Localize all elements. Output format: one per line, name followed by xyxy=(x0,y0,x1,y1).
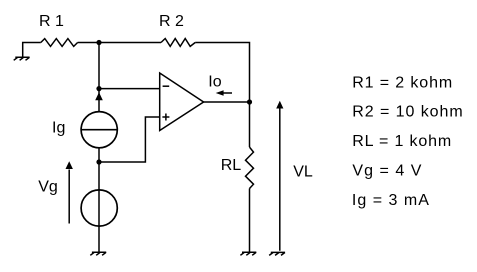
arrow Vg (source voltage arrow) xyxy=(68,170,70,224)
wire node D to op-amp non-inverting input xyxy=(99,117,160,162)
svg-text:R2 = 10 kohm: R2 = 10 kohm xyxy=(352,104,463,121)
wire node B to op-amp inverting input xyxy=(99,88,160,90)
svg-text:Io: Io xyxy=(208,74,221,91)
svg-text:R1 = 2 kohm: R1 = 2 kohm xyxy=(352,74,452,91)
arrow Io (output current, pointing left) xyxy=(223,92,232,94)
resistor RL xyxy=(246,147,254,188)
svg-text:Vg = 4 V: Vg = 4 V xyxy=(352,163,421,180)
svg-text:R 1: R 1 xyxy=(39,13,64,30)
svg-text:Ig = 3 mA: Ig = 3 mA xyxy=(352,192,429,209)
ground G4 (below VL arrow) xyxy=(269,252,285,255)
op-amp inverting input '-' sign xyxy=(163,85,170,87)
resistor R1 xyxy=(41,39,78,47)
svg-text:Vg: Vg xyxy=(38,178,58,195)
resistor R2 xyxy=(161,39,195,47)
voltage source Vg xyxy=(81,190,117,226)
wire R1 to node A xyxy=(78,42,99,44)
wire R2 to output node (top right corner down) xyxy=(195,43,249,103)
wire op-amp output to node C xyxy=(204,101,250,103)
svg-text:R 2: R 2 xyxy=(159,13,184,30)
arrow VL (load voltage measurement) xyxy=(279,108,281,251)
node A junction dot xyxy=(96,40,101,45)
wire node B down to current source Ig xyxy=(98,89,100,112)
ground G1 (top left) xyxy=(14,57,30,60)
op-amp non-inverting input '+' sign xyxy=(162,114,169,121)
node D junction dot xyxy=(96,159,101,164)
svg-text:Ig: Ig xyxy=(52,120,65,137)
wire node A down to node B xyxy=(98,43,100,89)
ground G2 (below RL) xyxy=(240,252,256,255)
node B junction dot xyxy=(96,86,101,91)
current direction arrowhead of Ig xyxy=(95,92,103,100)
wire output node down to RL xyxy=(249,102,251,147)
wire current source to node D xyxy=(98,148,100,162)
svg-text:RL = 1 kohm: RL = 1 kohm xyxy=(352,133,451,150)
svg-text:RL: RL xyxy=(221,157,242,174)
node C junction dot xyxy=(247,99,252,104)
svg-text:VL: VL xyxy=(293,163,313,180)
wire top-left corner to R1 xyxy=(23,43,41,57)
wire node A to R2 xyxy=(99,42,161,44)
wire node D through voltage source Vg to ground xyxy=(98,162,100,252)
op-amp U1 xyxy=(160,73,204,131)
ground G3 (below Vg) xyxy=(90,252,106,255)
current source Ig xyxy=(81,112,117,148)
wire RL to ground xyxy=(249,189,251,252)
